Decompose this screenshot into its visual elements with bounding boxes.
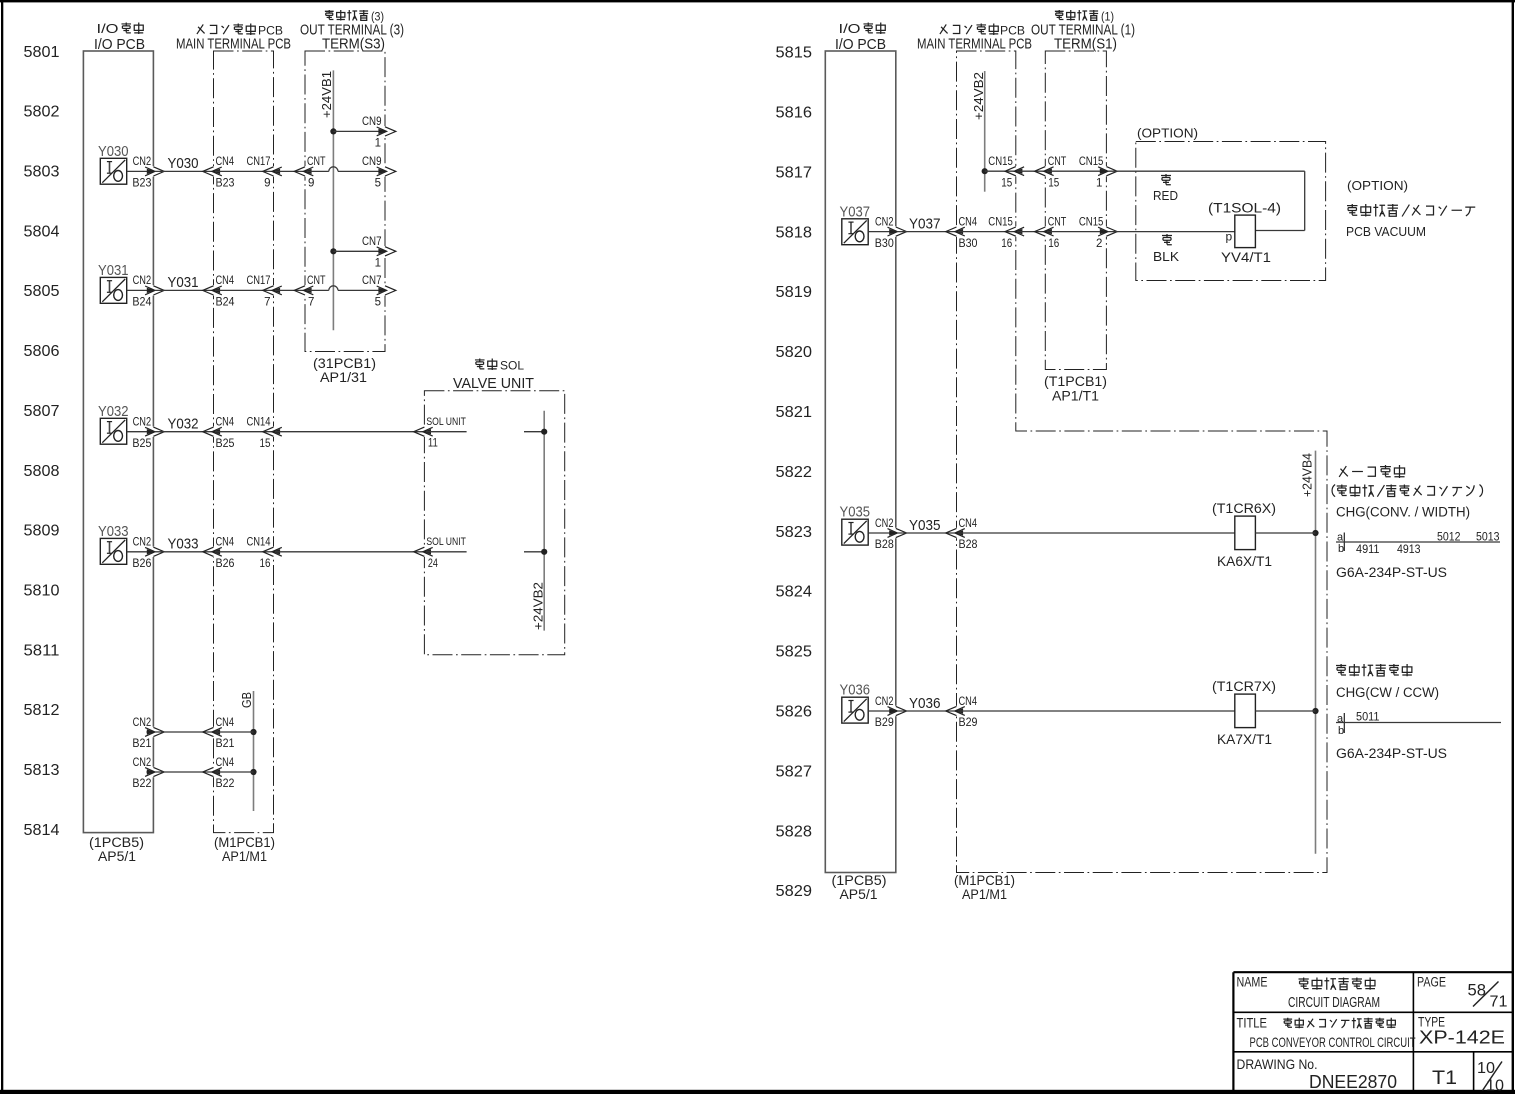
connector CN4/B29 <box>946 706 965 716</box>
svg-text:CN15: CN15 <box>988 156 1013 168</box>
label CN4/B25 <box>216 417 235 450</box>
label net Y030 <box>168 155 199 172</box>
svg-text:B24: B24 <box>132 297 152 309</box>
connector CN2/B25 <box>145 427 164 437</box>
node line 5829 <box>776 883 813 900</box>
node line 5817 <box>776 164 813 181</box>
svg-text:b: b <box>1338 543 1344 555</box>
svg-text:9: 9 <box>264 178 270 190</box>
node line 5805 <box>24 283 60 300</box>
label CN4/B24 <box>216 275 236 308</box>
label Y031 (component) <box>98 263 129 279</box>
label GB <box>240 692 254 708</box>
connector CN15/1 <box>1098 166 1117 176</box>
wire Y031 segment c <box>215 289 274 291</box>
wire Y030 segment b <box>155 170 214 172</box>
wire Y033 segment c <box>215 551 274 553</box>
svg-text:DNEE2870: DNEE2870 <box>1309 1072 1397 1092</box>
svg-text:5817: 5817 <box>776 164 813 181</box>
svg-text:CN2: CN2 <box>133 717 152 729</box>
svg-text:15: 15 <box>1001 177 1012 189</box>
connector CN4/B22 <box>203 767 222 777</box>
svg-text:T1: T1 <box>1432 1068 1457 1089</box>
svg-text:Y035: Y035 <box>909 517 941 534</box>
svg-text:B23: B23 <box>132 178 151 190</box>
label KA6X/T1 <box>1217 554 1272 569</box>
component Y036 I/O output <box>842 697 868 723</box>
wire 5817 corner down <box>1304 171 1306 230</box>
connector CN4/B25 <box>203 427 222 437</box>
label PCB VACUUM <box>1346 224 1426 239</box>
wire 5817 b <box>1017 170 1045 172</box>
svg-text:RED: RED <box>1153 189 1178 203</box>
connector CNT/9 (S3) <box>294 166 313 176</box>
label CN14/15 <box>247 417 271 450</box>
net +24VB2 vertical (valve) <box>543 411 545 631</box>
label net Y033 <box>168 536 199 553</box>
label 赤 RED <box>1153 174 1178 203</box>
wire Y033 pigtail <box>426 551 467 553</box>
label net Y032 <box>168 416 199 433</box>
svg-text:Y037: Y037 <box>909 215 941 232</box>
label CN2/B23 <box>132 156 151 189</box>
wire Y037 d <box>1017 231 1045 233</box>
wire Y030 segment a <box>127 170 154 172</box>
svg-text:B28: B28 <box>959 539 978 551</box>
title DRAWING No. <box>1237 1056 1318 1072</box>
label CN4/B26 <box>216 537 235 570</box>
component Y031 I/O output <box>100 277 126 303</box>
connector CN9-1 at TERM(S3) <box>377 126 396 136</box>
component Y032 I/O output <box>100 418 126 444</box>
title TYPE <box>1418 1015 1445 1030</box>
svg-text:CHG(CW / CCW): CHG(CW / CCW) <box>1336 685 1439 700</box>
svg-text:TERM(S1): TERM(S1) <box>1054 37 1117 53</box>
connector CN15/2 <box>1098 226 1117 236</box>
svg-text:B25: B25 <box>132 438 151 450</box>
svg-text:5812: 5812 <box>24 702 60 719</box>
title NAME <box>1237 975 1268 990</box>
label CN4/B23 <box>216 156 235 189</box>
node line 5811 <box>24 642 60 659</box>
connector CN4/B30 <box>946 226 965 236</box>
svg-text:CN7: CN7 <box>362 275 382 287</box>
svg-text:5820: 5820 <box>776 344 813 361</box>
label CN17/9 <box>247 156 271 189</box>
svg-text:11: 11 <box>428 438 438 450</box>
svg-text:5: 5 <box>375 178 381 190</box>
label (1PCB5) AP5/1 (right) <box>832 873 887 902</box>
wire Y031 segment e (hop over +24VB1) <box>307 286 386 291</box>
I/O PCB board box (right) <box>825 51 896 873</box>
svg-text:(M1PCB1): (M1PCB1) <box>954 873 1015 888</box>
svg-text:(T1SOL-4): (T1SOL-4) <box>1208 201 1281 216</box>
label CHG(CW / CCW) <box>1336 685 1439 700</box>
label YV4/T1 <box>1221 250 1271 265</box>
svg-text:5810: 5810 <box>24 582 60 599</box>
title DNEE2870 <box>1309 1072 1397 1092</box>
svg-text:5824: 5824 <box>776 584 813 601</box>
wire Y035 b <box>897 532 956 534</box>
label annotation (OPTION) <box>1347 178 1408 193</box>
label CNT/15 <box>1048 156 1067 189</box>
label 外部中継(3) <box>325 10 384 24</box>
net GB vertical line <box>253 691 255 811</box>
svg-text:I/O PCB: I/O PCB <box>94 36 145 53</box>
wire Y033 to +24VB2 <box>524 551 544 553</box>
junction dot +24VB1/CN7 <box>330 248 336 254</box>
label (M1PCB1) AP1/M1 (left) <box>214 835 275 864</box>
svg-text:CNT: CNT <box>1048 156 1067 168</box>
node line 5820 <box>776 344 813 361</box>
connector CN2/B24 <box>145 285 164 295</box>
wire Y032 segment d <box>275 431 424 433</box>
label CN2/B28 <box>875 518 894 551</box>
svg-text:B30: B30 <box>959 238 978 250</box>
svg-text:AP5/1: AP5/1 <box>840 887 878 902</box>
label I/O PCB (left) <box>94 36 145 53</box>
title PAGE <box>1417 975 1446 990</box>
svg-text:a: a <box>1337 713 1344 725</box>
svg-text:CNT: CNT <box>1048 216 1067 228</box>
label (T1SOL-4) <box>1208 201 1281 216</box>
svg-text:2: 2 <box>1096 238 1102 250</box>
wire B21 to GB <box>215 731 254 733</box>
svg-text:Y032: Y032 <box>98 404 129 420</box>
svg-text:AP1/M1: AP1/M1 <box>222 849 267 864</box>
label CN9 / 1 (row 5802) <box>362 116 382 149</box>
label I/O PCB (right) <box>835 36 886 53</box>
svg-text:5809: 5809 <box>24 523 60 540</box>
label (1PCB5) AP5/1 (left) <box>89 835 144 864</box>
connector CN14/15 <box>263 427 282 437</box>
svg-text:5813: 5813 <box>24 762 60 779</box>
svg-text:5819: 5819 <box>776 284 813 301</box>
svg-text:+24VB2: +24VB2 <box>532 582 546 630</box>
svg-text:VALVE UNIT: VALVE UNIT <box>453 376 534 392</box>
svg-text:5826: 5826 <box>776 704 813 721</box>
component Y033 I/O output <box>100 538 126 564</box>
svg-text:CN4: CN4 <box>959 696 978 708</box>
label SOL UNIT / 24 <box>426 536 466 570</box>
node line 5826 <box>776 704 813 721</box>
svg-text:MAIN TERMINAL PCB: MAIN TERMINAL PCB <box>176 37 291 53</box>
svg-text:5811: 5811 <box>24 642 60 659</box>
connector CN4/B21 <box>203 727 222 737</box>
connector CN7-1 at TERM(S3) <box>377 246 396 256</box>
svg-text:5818: 5818 <box>776 224 813 241</box>
label I/O基板 (left) <box>97 22 144 36</box>
label net Y037 <box>909 215 941 232</box>
svg-text:B25: B25 <box>216 438 235 450</box>
svg-text:CN14: CN14 <box>247 537 271 549</box>
junction dot +24VB2 row 5807 <box>541 429 547 435</box>
title sheet 10/10 <box>1477 1060 1504 1094</box>
svg-text:B29: B29 <box>959 717 978 729</box>
svg-text:15: 15 <box>1048 177 1059 189</box>
svg-text:(1PCB5): (1PCB5) <box>89 835 144 850</box>
connector CNT/16 <box>1035 226 1054 236</box>
svg-text:CN4: CN4 <box>216 156 235 168</box>
svg-text:NAME: NAME <box>1237 975 1268 990</box>
svg-text:71: 71 <box>1490 994 1508 1011</box>
title page 58/71 <box>1468 981 1508 1011</box>
label 5011 <box>1356 712 1380 724</box>
svg-text:MAIN TERMINAL PCB: MAIN TERMINAL PCB <box>917 37 1032 53</box>
svg-text:KA6X/T1: KA6X/T1 <box>1217 554 1272 569</box>
label (M1PCB1) AP1/M1 (right) <box>954 873 1015 902</box>
contact a/b KA6X <box>1336 532 1500 556</box>
label CN4/B21 <box>216 717 235 750</box>
svg-text:SOL UNIT: SOL UNIT <box>426 536 466 548</box>
svg-text:1: 1 <box>375 137 381 149</box>
wire CN9 pin1 <box>333 130 385 132</box>
svg-text:TITLE: TITLE <box>1237 1016 1268 1031</box>
node line 5816 <box>776 105 813 122</box>
wire Y030 segment c <box>215 170 274 172</box>
svg-text:24: 24 <box>428 558 438 570</box>
OUT TERMINAL (3) box TERM(S3) <box>305 51 385 352</box>
svg-text:I/O: I/O <box>97 22 119 36</box>
svg-text:5829: 5829 <box>776 883 813 900</box>
svg-text:5802: 5802 <box>24 104 60 121</box>
label 集中SOL <box>475 359 524 373</box>
connector CN2/B23 <box>145 166 164 176</box>
connector CN17/9 <box>263 166 282 176</box>
connector CN2/B29 <box>888 706 907 716</box>
svg-text:5807: 5807 <box>24 403 60 420</box>
connector CN4/B24 <box>203 285 222 295</box>
svg-text:XP-142E: XP-142E <box>1419 1028 1505 1048</box>
label CNT/16 <box>1048 216 1067 249</box>
svg-text:Y033: Y033 <box>98 524 129 540</box>
label +24VB2 (valve) <box>532 582 546 630</box>
svg-text:16: 16 <box>1001 238 1012 250</box>
I/O PCB board box (left) <box>83 51 153 833</box>
wire coil KA7X to +24VB4 <box>1255 710 1315 712</box>
svg-text:10: 10 <box>1486 1078 1504 1094</box>
svg-text:PCB VACUUM: PCB VACUUM <box>1346 224 1426 239</box>
junction dot +24VB2/CN15 <box>982 168 988 174</box>
svg-text:5804: 5804 <box>24 223 60 240</box>
OUT TERMINAL (1) box TERM(S1) <box>1045 51 1106 370</box>
svg-text:CN14: CN14 <box>247 417 271 429</box>
wire Y035 a <box>868 532 896 534</box>
svg-text:(1PCB5): (1PCB5) <box>832 873 887 888</box>
wire B22 to GB <box>215 771 254 773</box>
svg-text:CN9: CN9 <box>362 156 382 168</box>
label (T1CR6X) <box>1212 501 1276 516</box>
svg-text:CN15: CN15 <box>1079 216 1104 228</box>
svg-text:9: 9 <box>308 178 314 190</box>
connector CNT/15 <box>1035 166 1054 176</box>
label CN14/16 <box>247 537 271 570</box>
wire Y037 f (to solenoid) <box>1108 231 1235 233</box>
svg-text:I/O: I/O <box>839 22 861 36</box>
svg-text:5808: 5808 <box>24 463 60 480</box>
label CN4/B28 <box>959 518 978 551</box>
svg-text:5823: 5823 <box>776 524 813 541</box>
svg-text:CN4: CN4 <box>216 757 235 769</box>
net +24VB1 vertical line <box>332 70 334 330</box>
label OUT TERMINAL (1) <box>1031 23 1135 39</box>
node line 5823 <box>776 524 813 541</box>
svg-text:AP5/1: AP5/1 <box>98 849 136 864</box>
wire Y036 b <box>897 710 956 712</box>
wire Y030 segment e (hop over +24VB1) <box>307 167 386 172</box>
wire Y032 segment a <box>127 431 154 433</box>
svg-text:5012: 5012 <box>1437 532 1461 544</box>
wire 5817 c <box>1047 170 1107 172</box>
label CNT/7 <box>307 275 326 308</box>
svg-text:Y035: Y035 <box>840 505 871 521</box>
title 基板コンベヤ制御回路 <box>1283 1018 1395 1029</box>
node line 5806 <box>24 343 60 360</box>
component Y030 I/O output <box>100 158 126 184</box>
svg-text:DRAWING No.: DRAWING No. <box>1237 1056 1318 1072</box>
svg-text:Y032: Y032 <box>168 416 199 433</box>
label +24VB4 <box>1301 453 1315 497</box>
svg-text:1: 1 <box>1096 177 1102 189</box>
svg-text:5814: 5814 <box>24 822 60 839</box>
node line 5815 <box>776 45 813 62</box>
label KA7X/T1 <box>1217 732 1272 747</box>
label CNT/9 <box>307 156 326 189</box>
svg-text:CN4: CN4 <box>216 717 235 729</box>
wire Y036 a <box>868 710 896 712</box>
svg-text:I/O PCB: I/O PCB <box>835 36 886 53</box>
label (T1PCB1) AP1/T1 <box>1044 374 1107 404</box>
wire Y032 to +24VB2 <box>524 431 544 433</box>
label VALVE UNIT <box>453 376 534 392</box>
label 5012 5013 <box>1437 532 1500 544</box>
node line 5828 <box>776 823 813 840</box>
node line 5801 <box>24 44 60 61</box>
node line 5812 <box>24 702 60 719</box>
wire 5817 a <box>985 170 1016 172</box>
connector CN2/B21 <box>145 727 164 737</box>
svg-text:BLK: BLK <box>1153 250 1180 264</box>
wire Y032 segment c <box>215 431 274 433</box>
label CN7/5 <box>362 275 382 308</box>
svg-text:CN17: CN17 <box>247 156 271 168</box>
connector CN15/15 <box>1005 166 1024 176</box>
wire B22 segment b <box>155 771 214 773</box>
svg-text:PCB CONVEYOR CONTROL CIRCUIT: PCB CONVEYOR CONTROL CIRCUIT <box>1250 1034 1416 1050</box>
connector CN7-5 <box>377 285 396 295</box>
svg-text:5815: 5815 <box>776 45 813 62</box>
wire Y037 c <box>958 231 1016 233</box>
node line 5813 <box>24 762 60 779</box>
svg-text:CN2: CN2 <box>875 518 894 530</box>
node line 5804 <box>24 223 60 240</box>
connector CN2/B26 <box>145 547 164 557</box>
label MAIN TERMINAL PCB (left) <box>176 37 291 53</box>
svg-text:CN4: CN4 <box>216 417 235 429</box>
label 回転方向切換 <box>1336 664 1412 676</box>
label TERM(S1) <box>1054 37 1117 53</box>
svg-text:Y033: Y033 <box>168 536 199 553</box>
label +24VB2 (right) <box>972 72 986 120</box>
label CN4/B22 <box>216 757 235 790</box>
node line 5809 <box>24 523 60 540</box>
connector CN2/B28 <box>888 528 907 538</box>
label MAIN TERMINAL PCB (right) <box>917 37 1032 53</box>
svg-text:CN4: CN4 <box>959 216 978 228</box>
svg-text:B26: B26 <box>216 558 235 570</box>
label CN2/B30 <box>875 216 894 249</box>
MAIN TERMINAL PCB box (left) <box>214 51 274 833</box>
label +24VB1 <box>320 71 334 118</box>
svg-text:AP1/T1: AP1/T1 <box>1052 389 1099 404</box>
connector CN2/B22 <box>145 767 164 777</box>
svg-text:B30: B30 <box>875 238 894 250</box>
junction dot GB/B21 <box>250 729 256 735</box>
wire CN7 pin1 <box>333 250 385 252</box>
relay coil KA7X/T1 (T1CR7X) <box>1235 694 1256 728</box>
svg-text:CHG(CONV. / WIDTH): CHG(CONV. / WIDTH) <box>1336 505 1470 520</box>
wire Y033 segment a <box>127 551 154 553</box>
node line 5822 <box>776 464 813 481</box>
svg-text:SOL: SOL <box>500 359 524 373</box>
svg-text:5825: 5825 <box>776 644 813 661</box>
svg-text:GB: GB <box>240 692 254 708</box>
svg-text:B24: B24 <box>216 297 236 309</box>
title PCB CONVEYOR CONTROL CIRCUIT <box>1250 1034 1416 1050</box>
svg-text:(T1PCB1): (T1PCB1) <box>1044 374 1107 389</box>
svg-text:CIRCUIT DIAGRAM: CIRCUIT DIAGRAM <box>1288 995 1380 1011</box>
svg-text:16: 16 <box>260 558 271 570</box>
svg-text:5011: 5011 <box>1356 712 1380 724</box>
wire 5817 e (to solenoid right) <box>1255 230 1304 232</box>
node line 5803 <box>24 164 60 181</box>
svg-text:CN2: CN2 <box>133 537 152 549</box>
label CN15/2 <box>1079 216 1104 249</box>
connector CN4/B26 <box>203 547 222 557</box>
svg-text:B23: B23 <box>216 178 235 190</box>
svg-text:CN4: CN4 <box>216 275 235 287</box>
svg-text:TERM(S3): TERM(S3) <box>322 37 385 53</box>
label モータ切換 <box>1339 465 1404 478</box>
junction dot +24VB4/KA6X <box>1312 530 1318 536</box>
connector CN9-5 <box>377 166 396 176</box>
svg-text:CN2: CN2 <box>133 275 152 287</box>
wire B22 segment a <box>146 771 153 773</box>
svg-text:4913: 4913 <box>1397 544 1421 556</box>
MAIN TERMINAL PCB box (right, extended) <box>957 51 1328 873</box>
label SOL UNIT / 11 <box>426 416 466 450</box>
wire Y031 segment d <box>275 289 305 291</box>
label 4911 4913 <box>1356 544 1421 556</box>
label (OPTION) box tag <box>1137 126 1198 141</box>
label CN2/B25 <box>132 417 151 450</box>
connector CNT/7 (S3) <box>294 285 313 295</box>
connector CN4/B28 <box>946 528 965 538</box>
connector SOL UNIT 11 <box>414 427 433 437</box>
wire B21 segment b <box>155 731 214 733</box>
node line 5807 <box>24 403 60 420</box>
svg-text:CN15: CN15 <box>988 216 1013 228</box>
label I/O基板 (right) <box>839 22 886 36</box>
svg-text:7: 7 <box>308 297 314 309</box>
svg-text:CN4: CN4 <box>216 537 235 549</box>
node line 5808 <box>24 463 60 480</box>
svg-text:5: 5 <box>375 297 381 309</box>
svg-text:CN2: CN2 <box>875 696 894 708</box>
title 電気回路線図 <box>1299 978 1375 990</box>
label (T1CR7X) <box>1212 679 1276 694</box>
svg-text:5801: 5801 <box>24 44 60 61</box>
